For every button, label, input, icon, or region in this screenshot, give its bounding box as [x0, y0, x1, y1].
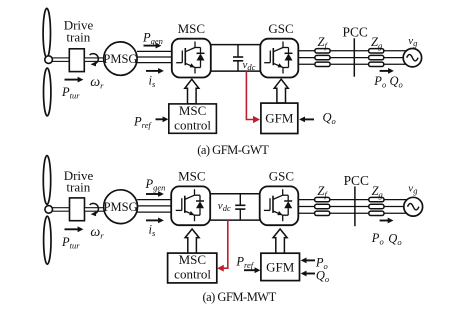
svg-text:(a) GFM-GWT: (a) GFM-GWT: [197, 143, 269, 157]
svg-text:GFM: GFM: [265, 110, 294, 125]
arrow P_tur (top diagram): [65, 77, 84, 83]
block arrow GFM to GSC (top diagram): [274, 79, 288, 103]
IGBT symbol inside MSC (bottom diagram): [176, 189, 204, 221]
arrow Q_o into GFM (bottom diagram): [301, 271, 315, 277]
three-phase wires PMSG to MSC (top diagram): [137, 51, 172, 62]
arrow Q_o into GFM (top diagram): [299, 117, 314, 123]
label Drive train (bottom diagram): [64, 168, 94, 195]
svg-text:train: train: [66, 29, 90, 44]
svg-text:MSC: MSC: [178, 21, 205, 36]
arrow P_o into GFM (bottom diagram): [301, 258, 315, 264]
wind turbine upper blade (top diagram): [43, 8, 50, 57]
PCC bus line (top diagram): [353, 38, 355, 76]
wind turbine lower blade (bottom diagram): [44, 216, 51, 264]
svg-text:MSC: MSC: [178, 169, 205, 184]
sine wave inside grid source (top diagram): [407, 55, 418, 61]
block arrow MSC control to MSC (top diagram): [185, 79, 199, 104]
impedance Z_g boxes (bottom diagram): [369, 197, 384, 215]
arrow P_gen (bottom diagram): [146, 191, 164, 197]
wind turbine upper blade (bottom diagram): [43, 156, 50, 205]
dc-link bottom rail (top diagram): [211, 70, 260, 72]
turbine shaft segment hub-to-gearbox (bottom diagram): [52, 208, 69, 212]
drive train box (bottom diagram): [70, 198, 85, 221]
generator PMSG circle (bottom diagram): [104, 190, 138, 224]
rotation arrow omega (top diagram): [90, 54, 99, 67]
label Drive train (top diagram): [64, 18, 94, 45]
rotation arrow omega (bottom diagram): [90, 203, 99, 216]
grid voltage source circle (bottom diagram): [404, 197, 423, 216]
arrow P_ref into GFM (bottom diagram): [244, 267, 260, 273]
svg-text:MSC: MSC: [179, 252, 206, 267]
svg-text:PCC: PCC: [344, 173, 369, 188]
dc-link top rail (bottom diagram): [210, 193, 260, 195]
turbine shaft segment hub-to-gearbox (top diagram): [52, 58, 69, 62]
arrow i_s (top diagram): [146, 68, 164, 74]
arrow P_o Q_o flow (bottom diagram): [380, 218, 394, 224]
arrow P_o Q_o flow (top diagram): [380, 68, 394, 74]
svg-text:MSC: MSC: [179, 103, 206, 118]
dc-link top rail (top diagram): [211, 44, 260, 46]
impedance Z_f boxes (top diagram): [315, 49, 330, 67]
three-phase wires GSC to grid (bottom diagram): [299, 200, 407, 214]
PCC bus line (bottom diagram): [354, 186, 356, 226]
svg-text:PCC: PCC: [343, 25, 368, 40]
wind turbine lower blade (top diagram): [44, 68, 51, 116]
svg-text:(a) GFM-MWT: (a) GFM-MWT: [202, 290, 276, 304]
impedance Z_g boxes (top diagram): [369, 49, 384, 67]
block arrow MSC control to MSC (bottom diagram): [185, 229, 199, 253]
svg-text:PMSG: PMSG: [104, 200, 138, 214]
generator PMSG circle (top diagram): [104, 42, 137, 75]
label P_o Q_o (top diagram): [373, 74, 402, 90]
shaft segment gearbox-to-PMSG (bottom diagram): [85, 208, 105, 212]
converter GSC box (bottom diagram): [260, 186, 299, 225]
IGBT symbol inside GSC (bottom diagram): [264, 189, 292, 221]
drive train box (top diagram): [69, 49, 84, 72]
sine wave inside grid source (bottom diagram): [408, 204, 419, 210]
MSC control box (bottom diagram): [168, 253, 217, 283]
three-phase wires GSC to grid (top diagram): [298, 51, 406, 65]
GFM box (bottom diagram): [261, 253, 300, 280]
dc-link capacitor (bottom diagram): [235, 194, 245, 220]
impedance Z_f boxes (bottom diagram): [315, 197, 330, 215]
three-phase wires PMSG to MSC (bottom diagram): [137, 200, 171, 213]
dc-link bottom rail (bottom diagram): [210, 219, 260, 221]
dc-link capacitor (top diagram): [233, 45, 243, 72]
GFM box (top diagram): [261, 103, 298, 133]
svg-text:control: control: [174, 118, 211, 133]
svg-text:PMSG: PMSG: [103, 52, 137, 66]
red feedback wire v_dc to GFM (top diagram): [246, 71, 260, 123]
arrow P_gen (top diagram): [144, 43, 162, 49]
red feedback wire v_dc to MSC control (bottom diagram): [217, 220, 228, 272]
arrow P_ref into MSC control (top diagram): [156, 116, 169, 122]
IGBT symbol inside GSC (top diagram): [264, 42, 292, 74]
svg-text:GSC: GSC: [268, 21, 293, 36]
arrow P_tur (bottom diagram): [65, 226, 84, 232]
turbine hub (top diagram): [45, 56, 53, 64]
label MSC control (top diagram): [174, 103, 211, 133]
IGBT symbol inside MSC (top diagram): [176, 42, 204, 74]
label MSC control (bottom diagram): [174, 252, 211, 282]
converter MSC box (top diagram): [172, 39, 211, 78]
svg-text:train: train: [66, 180, 90, 195]
svg-text:GFM: GFM: [266, 259, 295, 274]
converter GSC box (top diagram): [260, 39, 298, 78]
MSC control box (top diagram): [169, 104, 217, 133]
arrow i_s (bottom diagram): [146, 218, 164, 224]
turbine hub (bottom diagram): [45, 206, 53, 214]
converter MSC box (bottom diagram): [171, 186, 210, 225]
svg-text:GSC: GSC: [269, 169, 294, 184]
grid voltage source circle (top diagram): [403, 49, 421, 67]
svg-text:control: control: [174, 267, 211, 282]
shaft segment gearbox-to-PMSG (top diagram): [84, 58, 104, 62]
label P_o Q_o (bottom diagram): [371, 231, 402, 247]
block arrow GFM to GSC (bottom diagram): [273, 229, 287, 253]
